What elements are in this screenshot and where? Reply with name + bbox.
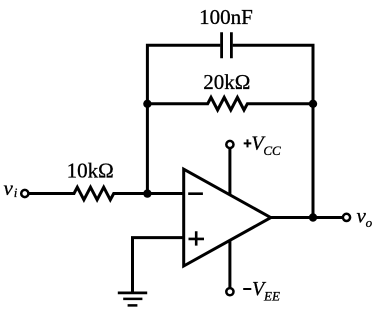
svg-text:10kΩ: 10kΩ — [67, 158, 114, 182]
svg-text:v: v — [4, 176, 14, 200]
svg-text:20kΩ: 20kΩ — [203, 70, 250, 94]
svg-text:EE: EE — [263, 288, 280, 303]
svg-text:CC: CC — [263, 143, 281, 158]
svg-text:100nF: 100nF — [199, 5, 253, 29]
svg-text:o: o — [366, 215, 373, 230]
svg-text:i: i — [14, 185, 18, 200]
